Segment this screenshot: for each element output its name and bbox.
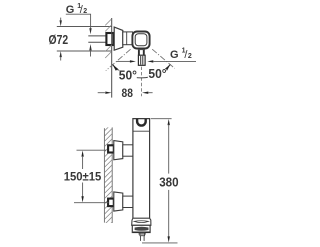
leader arrow down to pipe top: [89, 28, 91, 34]
dim 150±15 line + arrows: [81, 151, 83, 157]
lower ring bottom edge: [133, 231, 150, 233]
angle leader left with arrow to stem: [117, 60, 131, 62]
union escutcheon bottom: [114, 192, 123, 211]
inlet fitting square top: [108, 145, 114, 152]
leader arrow up to pipe bottom: [89, 44, 91, 50]
label 50° right: [148, 67, 167, 81]
top outlet U: [137, 119, 146, 126]
svg-text:50°: 50°: [119, 69, 137, 83]
flare highlight lens: [134, 221, 148, 223]
dim 380 line + arrows: [168, 119, 170, 125]
union connector bottom: [123, 196, 133, 207]
arc arrowhead left: [112, 64, 118, 70]
label 50° left: [118, 69, 137, 83]
dim 380 extension bottom: [142, 242, 178, 244]
union connector top: [123, 145, 133, 156]
angle arc (interrupted by labels): [112, 64, 170, 77]
dim 150±15 extension top: [77, 149, 107, 151]
svg-text:2: 2: [188, 53, 192, 60]
right 50° swivel centerline (dash-dot): [152, 49, 175, 68]
leader line G1/2 top: [66, 14, 91, 28]
concealed fitting (square): [106, 33, 113, 45]
extension line flange top: [57, 26, 112, 28]
inlet fitting square bottom: [108, 199, 114, 207]
dim Ø72 lower arrow: [60, 51, 62, 57]
svg-text:380: 380: [159, 174, 178, 189]
svg-text:88: 88: [122, 86, 134, 100]
hose nipple: [140, 236, 142, 241]
svg-text:50°: 50°: [148, 67, 166, 81]
bottom flare ring: [132, 218, 151, 225]
left 50° swivel centerline (dash-dot): [106, 49, 131, 70]
dim 380 extension top: [151, 118, 172, 120]
hose stem: [140, 233, 145, 236]
union escutcheon top: [114, 141, 123, 160]
wall hatching (front view): [104, 123, 112, 230]
handle outer (top view squircle): [132, 32, 149, 49]
angle leader right with arrow to stem (underlines G1/2): [147, 60, 153, 62]
handle inner contour: [135, 34, 147, 46]
dark outlet recess: [135, 227, 149, 231]
svg-text:150±15: 150±15: [64, 169, 102, 183]
wall band (front view): [103, 128, 105, 222]
lever stem (pointing down): [138, 48, 145, 55]
leader tail below pipe: [90, 50, 92, 57]
svg-text:Ø72: Ø72: [49, 33, 69, 47]
svg-text:G: G: [170, 49, 179, 61]
wall hatching (top view): [105, 19, 111, 58]
mixer body (front view): [133, 119, 150, 219]
lever end cap: [138, 55, 145, 65]
union nut top: [133, 147, 136, 155]
dim 88: left arrow at wall: [98, 92, 105, 94]
label G1/2 (right, outlet): [170, 47, 192, 61]
body neck (top view): [123, 32, 133, 45]
supply pipe in wall: [88, 35, 106, 37]
label G1/2 (top, inlet thread): [66, 3, 87, 16]
dim 150±15 extension bottom: [74, 202, 109, 204]
dim 88: right arrow at centerline: [142, 92, 148, 94]
dim Ø72 upper arrow: [60, 18, 62, 22]
body cap line: [133, 130, 150, 132]
wall line (top view): [111, 18, 113, 98]
arc arrowhead right: [165, 64, 171, 70]
center dashed line below stem: [140, 67, 142, 97]
extension line flange bottom: [57, 50, 112, 52]
flange escutcheon (top view): [114, 27, 123, 50]
union nut bottom: [133, 198, 136, 206]
lower ring: [132, 225, 150, 232]
